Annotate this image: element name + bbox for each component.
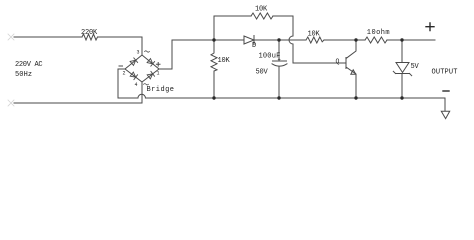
svg-text:220K: 220K (81, 29, 98, 37)
node R5 bottom junction (212, 96, 215, 99)
AC input terminal mark top (8, 34, 14, 40)
svg-text:D: D (252, 42, 256, 50)
svg-text:5V: 5V (411, 63, 420, 71)
svg-text:220V AC: 220V AC (15, 61, 42, 69)
svg-text:3: 3 (137, 50, 140, 56)
svg-text:50V: 50V (256, 69, 269, 77)
bridge diode bottom-left (130, 72, 136, 77)
bridge diode top-left (130, 60, 136, 65)
wire to bridge AC pin 3 (98, 37, 143, 55)
junction dots (212, 38, 403, 99)
resistor R2 10K (251, 13, 273, 19)
svg-text:50Hz: 50Hz (15, 71, 32, 79)
svg-text:Bridge: Bridge (147, 86, 175, 94)
AC input terminal mark bottom (8, 100, 14, 106)
resistor R4 10ohm (365, 37, 387, 43)
svg-text:4: 4 (135, 82, 138, 88)
bridge diamond edges (125, 55, 159, 82)
transistor Q (345, 58, 347, 69)
output arrow terminal (441, 111, 449, 118)
resistor R5 10K vertical (211, 40, 217, 98)
diode D (244, 36, 254, 44)
svg-text:10ohm: 10ohm (367, 29, 390, 37)
wire branch down with hop over DC rail (273, 16, 293, 63)
plus output symbol (426, 23, 434, 31)
wire DC rail segment 3 (324, 39, 365, 41)
wire DC+ rail segment 1 (172, 39, 244, 41)
node capacitor bottom junction (277, 96, 280, 99)
svg-text:1: 1 (157, 71, 160, 77)
svg-text:10K: 10K (308, 31, 321, 39)
bridge mark tilde? minus pin2 (119, 65, 123, 67)
wire ground rail with hop over AC return (118, 94, 445, 98)
resistor R3 10K (306, 37, 324, 43)
svg-text:+: + (278, 56, 281, 63)
svg-text:10K: 10K (218, 57, 231, 65)
bridge mark tilde pin4 (144, 84, 149, 85)
wire AC return bottom to bridge pin 4 (14, 82, 142, 103)
svg-text:2: 2 (123, 71, 126, 77)
minus output symbol (443, 90, 449, 92)
wire AC live top (14, 36, 82, 38)
zener diode 5V (401, 40, 403, 63)
wire bridge pin 2 minus to ground rail (118, 69, 125, 98)
bridge diode bottom-right (147, 74, 153, 79)
node zener top junction (400, 38, 403, 41)
svg-text:10K: 10K (255, 6, 268, 14)
wire top feedback branch (214, 16, 251, 40)
bridge diode top-right (147, 59, 153, 64)
node R5 top junction (212, 38, 215, 41)
node capacitor top junction (277, 38, 280, 41)
wire DC rail segment 4 to + output (387, 39, 435, 41)
node zener bottom junction (400, 96, 403, 99)
wire DC rail segment 2 (254, 39, 306, 41)
bridge mark tilde pin3 (145, 51, 150, 52)
node emitter junction (354, 96, 357, 99)
node collector junction (354, 38, 357, 41)
wire base (293, 62, 346, 64)
resistor R1 220K (82, 34, 98, 40)
svg-text:Q: Q (336, 58, 340, 65)
wire bridge pin 1 plus to DC rail (159, 40, 172, 69)
svg-text:OUTPUT: OUTPUT (432, 69, 458, 77)
bridge mark plus pin1 (156, 63, 160, 67)
wire - output drop (444, 98, 446, 111)
capacitor C1 100uF 50V (278, 40, 280, 61)
